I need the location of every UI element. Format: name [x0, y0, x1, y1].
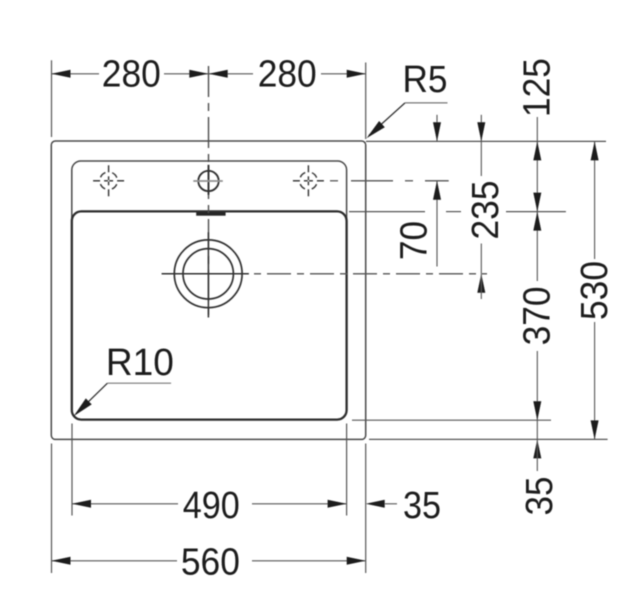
extension line outer-right downward [365, 444, 367, 574]
dimension 125 (top edge to bowl top edge) [536, 117, 538, 212]
faucet hole horizontal cross line [193, 180, 223, 182]
faucet hole vertical cross line [208, 165, 210, 195]
drain outer circle [174, 240, 242, 308]
extension line bowl-right downward [346, 424, 348, 516]
sink rim inner rounded rectangle [72, 161, 347, 420]
svg-text:235: 235 [465, 181, 507, 240]
bowl (490 wide) thick outline [72, 211, 347, 419]
svg-text:370: 370 [517, 286, 559, 345]
extension line top left [51, 60, 53, 137]
svg-text:280: 280 [102, 54, 161, 96]
dimension 70 (top edge to faucet line) [436, 115, 438, 142]
svg-text:125: 125 [516, 58, 558, 117]
R10 leader underline [107, 382, 171, 384]
dimension 35 horizontal (bowl right to outer right) [366, 500, 385, 508]
dimension line 280/280 [52, 73, 366, 75]
dimension 235 (top edge to drain center) [480, 115, 482, 142]
vertical centerline (dash-dot) [208, 66, 210, 317]
faucet hole circle [198, 171, 218, 191]
top edge extension line to right [366, 140, 606, 142]
extension line bowl-left downward [71, 424, 73, 516]
svg-text:35: 35 [403, 485, 441, 527]
bowl top edge extension segments to right [349, 211, 425, 213]
R5 leader underline [405, 102, 448, 104]
svg-text:490: 490 [183, 485, 240, 527]
svg-text:530: 530 [574, 261, 616, 320]
dimension 530 (overall height) [594, 141, 596, 259]
sink outer rectangle (560x530 overall) [51, 141, 365, 439]
left optional hole crosshair [93, 165, 124, 196]
drain inner circle [183, 249, 233, 299]
right optional hole crosshair [293, 165, 324, 196]
extension line outer-left downward [51, 444, 53, 574]
R5 leader arrowhead [367, 121, 385, 138]
dimension 490 (bowl width) [72, 503, 178, 505]
svg-text:70: 70 [394, 221, 436, 260]
svg-text:560: 560 [181, 541, 240, 583]
faucet row centerline extending right [330, 180, 449, 182]
drain vertical cross line [207, 232, 209, 317]
overflow slot bar at bowl top center [196, 212, 225, 215]
R10 leader arrowhead [74, 398, 92, 416]
dimension 35 vertical (bowl bottom to outer bottom) [536, 420, 538, 439]
outer bottom edge extension to right [369, 438, 608, 440]
extension line top right [365, 63, 367, 140]
drain horizontal cross line [162, 273, 249, 275]
arrowheads 280/280 [52, 70, 366, 78]
R10 leader diagonal [76, 383, 107, 414]
svg-text:280: 280 [258, 54, 317, 96]
dimension 560 (overall width) [52, 560, 178, 562]
svg-text:R5: R5 [403, 59, 448, 101]
svg-text:R10: R10 [106, 342, 174, 384]
svg-text:35: 35 [519, 477, 561, 516]
dimension 370 (bowl top edge to bowl bottom) [536, 212, 538, 281]
bowl bottom edge extension to right [352, 419, 551, 421]
drain centerline extending right (dash-dot) [254, 273, 487, 275]
R5 leader diagonal [369, 103, 405, 135]
